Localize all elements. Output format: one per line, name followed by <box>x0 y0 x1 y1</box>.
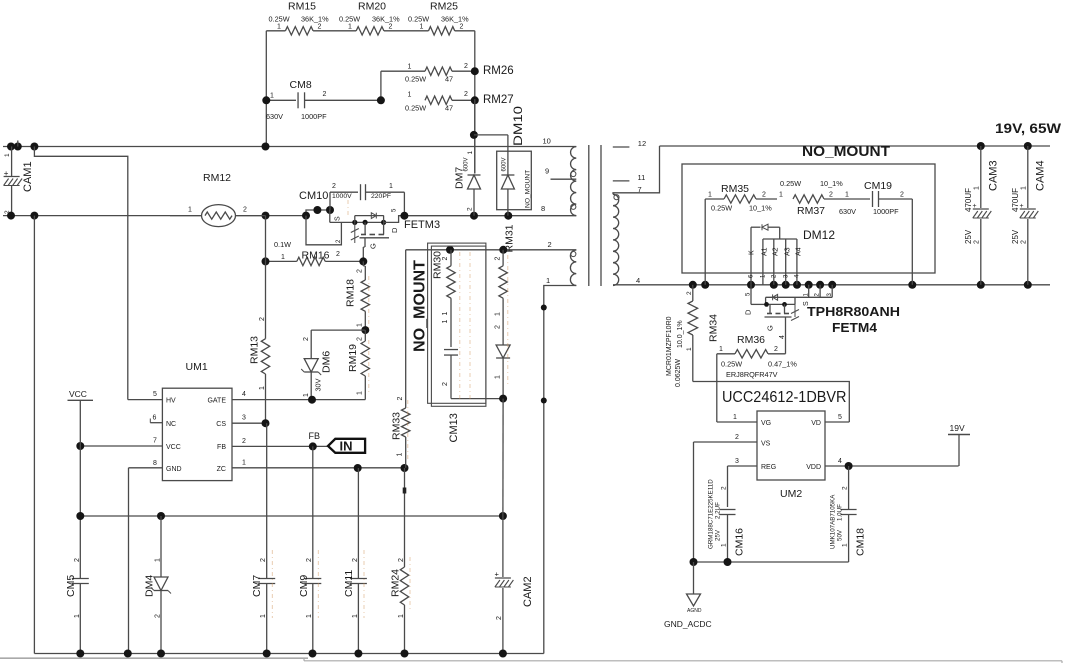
svg-text:2: 2 <box>442 257 449 261</box>
transistor FETM3 <box>330 208 440 261</box>
svg-text:1: 1 <box>260 614 267 618</box>
svg-text:CM8: CM8 <box>290 79 312 91</box>
svg-text:TPH8R80ANH: TPH8R80ANH <box>807 305 900 319</box>
svg-text:RM35: RM35 <box>721 183 749 195</box>
svg-text:CM11: CM11 <box>343 570 355 597</box>
op-amp U1 label UM1 <box>186 361 208 373</box>
svg-text:5: 5 <box>838 414 842 421</box>
svg-text:1: 1 <box>352 614 359 618</box>
svg-text:2: 2 <box>686 291 693 295</box>
svg-text:2: 2 <box>397 397 404 401</box>
svg-text:RM12: RM12 <box>203 172 231 184</box>
svg-text:2: 2 <box>357 337 364 341</box>
svg-text:1: 1 <box>495 375 502 379</box>
resistor RM16 <box>262 240 368 266</box>
power VCC <box>68 389 94 446</box>
svg-text:FB: FB <box>217 444 226 451</box>
svg-text:0.1W: 0.1W <box>274 240 291 249</box>
wire HV drop <box>34 147 127 400</box>
svg-text:NO_MOUNT: NO_MOUNT <box>412 260 429 352</box>
svg-text:2: 2 <box>495 257 502 261</box>
capacitor CM8 <box>262 79 385 121</box>
svg-text:DM6: DM6 <box>321 351 333 373</box>
svg-text:1: 1 <box>721 543 728 547</box>
svg-text:RM25: RM25 <box>430 0 458 12</box>
wire top network left rail <box>266 31 285 147</box>
svg-text:GATE: GATE <box>207 398 226 405</box>
svg-text:1: 1 <box>974 186 981 190</box>
svg-text:2: 2 <box>762 192 766 199</box>
svg-text:2: 2 <box>496 616 503 620</box>
svg-text:2: 2 <box>318 23 322 30</box>
annotation NO_MOUNT right <box>682 144 935 273</box>
svg-text:CM9: CM9 <box>298 575 310 597</box>
svg-text:1: 1 <box>546 276 550 285</box>
svg-text:1: 1 <box>442 320 449 324</box>
svg-text:A4: A4 <box>796 247 803 256</box>
svg-text:RM31: RM31 <box>504 224 516 252</box>
capacitor CM13 <box>442 320 503 443</box>
svg-text:FETM4: FETM4 <box>832 321 877 335</box>
resistor RM19 <box>347 330 370 400</box>
svg-text:1: 1 <box>259 386 266 390</box>
svg-text:RM36: RM36 <box>737 334 765 346</box>
resistor RM35 <box>705 183 777 213</box>
svg-text:2: 2 <box>900 192 904 199</box>
svg-text:CAM3: CAM3 <box>988 160 1000 191</box>
capacitor CM7 <box>251 423 275 653</box>
svg-text:0.0625W: 0.0625W <box>675 359 682 387</box>
svg-text:1: 1 <box>303 393 310 397</box>
svg-text:1: 1 <box>281 254 285 261</box>
svg-text:G: G <box>369 243 378 249</box>
svg-text:FB: FB <box>309 431 321 441</box>
wire secondary top bus <box>660 142 1051 150</box>
annotation bottom frame <box>0 658 1062 663</box>
svg-text:2: 2 <box>357 269 364 273</box>
svg-text:1: 1 <box>408 64 412 71</box>
svg-text:G: G <box>766 325 775 331</box>
svg-text:2: 2 <box>260 558 267 562</box>
svg-text:2: 2 <box>464 91 468 98</box>
svg-text:1: 1 <box>357 391 364 395</box>
svg-text:1: 1 <box>397 453 404 457</box>
svg-text:19V: 19V <box>950 423 965 433</box>
svg-text:4: 4 <box>779 335 786 339</box>
svg-text:NO_MOUNT: NO_MOUNT <box>802 144 890 160</box>
annotation dnp marks <box>272 200 508 618</box>
wire CAM1 ground column <box>33 216 35 654</box>
svg-text:RM13: RM13 <box>249 336 261 364</box>
op-amp UM2 body <box>757 411 825 500</box>
wire UM2 gnd <box>690 558 849 566</box>
resistor RM30 <box>432 250 456 347</box>
svg-text:630V: 630V <box>266 112 283 121</box>
resistor RM26 <box>381 63 514 100</box>
svg-text:2: 2 <box>389 23 393 30</box>
svg-text:2: 2 <box>721 486 728 490</box>
svg-text:CM18: CM18 <box>855 528 867 556</box>
diode DM10 box <box>474 106 532 216</box>
svg-text:ERJ8RQFR47V: ERJ8RQFR47V <box>726 370 778 379</box>
resistor RM20 <box>339 0 400 35</box>
svg-text:600V: 600V <box>502 157 508 171</box>
capacitor CAM3 <box>964 146 1000 285</box>
svg-text:1: 1 <box>4 153 11 157</box>
svg-text:UM1: UM1 <box>186 361 208 373</box>
diode RM31 lower <box>495 325 511 516</box>
capacitor CM19 <box>839 180 912 216</box>
svg-text:2: 2 <box>74 558 81 562</box>
label output <box>995 121 1061 136</box>
pin 4 VDD <box>825 458 959 470</box>
diode DM12 <box>749 224 836 285</box>
pin 4 GATE <box>232 391 365 404</box>
svg-text:25V: 25V <box>1011 229 1020 244</box>
svg-text:2: 2 <box>464 63 468 70</box>
pin 1 ZC <box>232 460 409 473</box>
diode DM6 <box>301 330 365 400</box>
svg-text:1: 1 <box>74 614 81 618</box>
svg-text:VCC: VCC <box>69 389 87 399</box>
capacitor CM16 <box>708 479 746 562</box>
svg-text:RM26: RM26 <box>483 65 514 77</box>
resistor RM24 <box>390 468 409 654</box>
svg-text:10_1%: 10_1% <box>820 179 843 188</box>
svg-text:0.47_1%: 0.47_1% <box>768 360 797 369</box>
transformer primary winding 2-1 <box>546 240 576 285</box>
svg-text:2: 2 <box>774 346 778 353</box>
svg-text:IN: IN <box>340 439 353 454</box>
svg-text:VCC: VCC <box>166 444 181 451</box>
svg-text:600V: 600V <box>464 157 470 171</box>
pin 2 FB <box>232 438 327 450</box>
wire source loop <box>306 216 342 245</box>
svg-text:1000V: 1000V <box>332 193 352 200</box>
svg-text:+: + <box>1020 203 1024 210</box>
svg-text:1: 1 <box>495 312 502 316</box>
svg-text:2: 2 <box>332 183 336 190</box>
transistor FETM4 <box>744 285 901 354</box>
svg-text:VDD: VDD <box>806 464 821 471</box>
svg-text:0.25W: 0.25W <box>339 15 360 24</box>
svg-text:7: 7 <box>153 438 157 445</box>
svg-text:RM37: RM37 <box>797 205 825 217</box>
svg-text:S: S <box>335 216 342 221</box>
svg-text:RM33: RM33 <box>391 412 403 440</box>
transformer primary winding 10-8 <box>541 137 576 216</box>
svg-text:+: + <box>4 169 9 178</box>
svg-text:DM10: DM10 <box>511 106 525 146</box>
ground GND_ACDC <box>664 562 712 629</box>
svg-text:47: 47 <box>445 75 453 84</box>
svg-text:0.25W: 0.25W <box>721 360 742 369</box>
op-amp UM1 body <box>162 388 232 480</box>
wire pin2 line <box>406 246 577 254</box>
svg-text:GRM188C71E225KE11D: GRM188C71E225KE11D <box>708 479 715 549</box>
wire pin1 return <box>541 286 577 654</box>
svg-text:CM19: CM19 <box>864 180 892 192</box>
svg-text:CM10: CM10 <box>299 190 328 202</box>
resistor RM33 <box>391 250 410 468</box>
svg-text:2: 2 <box>460 23 464 30</box>
svg-text:0.25W: 0.25W <box>405 104 426 113</box>
svg-text:19V, 65W: 19V, 65W <box>995 121 1061 136</box>
svg-text:UCC24612-1DBVR: UCC24612-1DBVR <box>722 389 847 406</box>
svg-text:1000PF: 1000PF <box>301 112 327 121</box>
svg-text:GND_ACDC: GND_ACDC <box>664 619 712 629</box>
svg-text:2: 2 <box>155 614 162 618</box>
wire VD leg <box>693 382 850 423</box>
svg-text:CAM2: CAM2 <box>522 576 534 607</box>
svg-text:RM27: RM27 <box>483 94 514 106</box>
svg-text:RM20: RM20 <box>358 0 386 12</box>
resistor RM27 <box>405 91 514 113</box>
svg-text:1: 1 <box>420 23 424 30</box>
svg-text:AGND: AGND <box>687 608 702 614</box>
svg-text:10: 10 <box>543 137 551 146</box>
svg-text:2: 2 <box>442 382 449 386</box>
capacitor CM10 <box>299 183 404 216</box>
capacitor CM5 <box>65 558 89 654</box>
svg-text:1: 1 <box>779 192 783 199</box>
resistor RM36 <box>717 334 798 379</box>
svg-text:1: 1 <box>357 323 364 327</box>
svg-text:RM15: RM15 <box>288 0 316 12</box>
op-amp UM2 label <box>722 389 847 406</box>
svg-text:2: 2 <box>467 207 474 211</box>
svg-text:630V: 630V <box>839 207 856 216</box>
svg-text:2: 2 <box>842 486 849 490</box>
svg-text:DM12: DM12 <box>803 228 835 242</box>
svg-text:1: 1 <box>348 23 352 30</box>
svg-text:1: 1 <box>467 151 474 155</box>
svg-text:1: 1 <box>845 192 849 199</box>
wire VG leg <box>716 354 718 422</box>
wire RM20-RM25 <box>384 30 429 32</box>
svg-text:1: 1 <box>708 192 712 199</box>
svg-text:REG: REG <box>761 464 776 471</box>
svg-text:1: 1 <box>242 460 246 467</box>
svg-text:RM30: RM30 <box>432 251 444 279</box>
svg-text:HV: HV <box>166 398 176 405</box>
resistor RM15 <box>269 0 330 35</box>
svg-text:10_1%: 10_1% <box>749 204 772 213</box>
resistor RM18 <box>345 261 370 334</box>
pin 3 CS <box>232 415 270 428</box>
svg-text:VD: VD <box>811 420 821 427</box>
capacitor CAM4 <box>1011 146 1047 285</box>
svg-text:2: 2 <box>974 240 981 244</box>
annotation NO_MOUNT middle <box>412 243 486 406</box>
capacitor CM18 <box>830 466 867 562</box>
svg-text:CAM1: CAM1 <box>22 161 34 192</box>
net FB flag IN <box>309 431 366 454</box>
svg-text:CM13: CM13 <box>448 413 460 442</box>
svg-text:12: 12 <box>638 139 646 148</box>
svg-text:0.25W: 0.25W <box>711 204 732 213</box>
svg-text:CM7: CM7 <box>251 575 263 597</box>
svg-text:1: 1 <box>188 207 192 214</box>
svg-text:6: 6 <box>153 415 157 422</box>
wire pin7 up <box>613 146 660 194</box>
svg-text:3: 3 <box>735 458 739 465</box>
node stub L <box>17 141 19 147</box>
svg-text:RM16: RM16 <box>302 250 330 262</box>
svg-text:0.25W: 0.25W <box>780 179 801 188</box>
svg-text:11: 11 <box>638 173 646 182</box>
svg-text:2: 2 <box>1021 240 1028 244</box>
svg-text:GND: GND <box>166 466 182 473</box>
svg-text:K: K <box>749 250 756 255</box>
svg-text:1: 1 <box>686 347 693 351</box>
capacitor CAM2 <box>495 516 535 654</box>
power 19V <box>948 423 970 466</box>
svg-text:VG: VG <box>761 420 771 427</box>
pin 5 VD <box>825 414 849 422</box>
pin 8 GND <box>129 460 163 654</box>
svg-text:UMK107AB7105KA: UMK107AB7105KA <box>830 494 837 549</box>
svg-text:220PF: 220PF <box>371 193 391 200</box>
svg-text:2: 2 <box>398 558 405 562</box>
svg-text:36K_1%: 36K_1% <box>441 15 469 24</box>
svg-text:0.25W: 0.25W <box>408 15 429 24</box>
svg-text:DM4: DM4 <box>144 575 156 597</box>
wire secondary bottom bus <box>613 281 1050 289</box>
svg-text:MCR01MZPF10R0: MCR01MZPF10R0 <box>666 316 673 376</box>
svg-text:36K_1%: 36K_1% <box>301 15 329 24</box>
svg-text:2: 2 <box>242 438 246 445</box>
svg-text:1: 1 <box>408 92 412 99</box>
wire ground bus <box>34 650 543 658</box>
svg-text:2: 2 <box>495 325 502 329</box>
svg-text:2: 2 <box>829 192 833 199</box>
svg-text:4: 4 <box>838 458 842 465</box>
transformer secondary winding 7-4 <box>613 185 642 285</box>
svg-text:+: + <box>495 570 500 579</box>
wire top network right rail <box>455 31 475 174</box>
svg-text:1: 1 <box>733 414 737 421</box>
diode DM4 <box>144 516 172 654</box>
svg-text:2: 2 <box>259 317 266 321</box>
svg-text:A2: A2 <box>773 247 780 256</box>
svg-text:0.25W: 0.25W <box>269 15 290 24</box>
resistor RM37 <box>779 179 845 217</box>
svg-text:UM2: UM2 <box>780 488 802 500</box>
wire VCC rail <box>76 446 507 579</box>
svg-text:4: 4 <box>242 391 246 398</box>
svg-text:RM24: RM24 <box>390 569 402 597</box>
svg-text:8: 8 <box>541 204 545 213</box>
pin 6 NC <box>150 415 162 423</box>
svg-text:36K_1%: 36K_1% <box>372 15 400 24</box>
svg-text:D: D <box>744 309 753 315</box>
svg-text:2: 2 <box>306 558 313 562</box>
svg-text:1: 1 <box>719 346 723 353</box>
svg-text:CM5: CM5 <box>65 575 77 597</box>
svg-text:2.2UF: 2.2UF <box>715 502 722 519</box>
svg-text:5: 5 <box>153 391 157 398</box>
wire RM15-RM20 <box>313 30 356 32</box>
svg-text:+: + <box>973 203 977 210</box>
svg-text:VS: VS <box>761 441 771 448</box>
svg-text:CAM4: CAM4 <box>1035 160 1047 191</box>
svg-text:2: 2 <box>303 337 310 341</box>
svg-text:CS: CS <box>216 421 226 428</box>
wire source jog <box>302 206 334 220</box>
svg-text:2: 2 <box>548 240 552 249</box>
svg-text:1: 1 <box>155 558 162 562</box>
svg-text:1: 1 <box>398 614 405 618</box>
svg-text:NO_MOUNT: NO_MOUNT <box>525 170 532 208</box>
svg-text:ZC: ZC <box>217 466 226 473</box>
pin 2 VS <box>694 434 758 562</box>
svg-text:2: 2 <box>352 558 359 562</box>
svg-text:0.25W: 0.25W <box>405 75 426 84</box>
pin 5 HV <box>128 391 163 400</box>
node stub 11 <box>613 173 645 182</box>
svg-text:2: 2 <box>243 207 247 214</box>
resistor RM25 <box>408 0 469 35</box>
pin 1 VG <box>717 414 757 422</box>
wire RM35 left leg <box>704 199 706 285</box>
svg-text:1: 1 <box>270 93 274 100</box>
svg-text:8: 8 <box>153 460 157 467</box>
resistor RM34 <box>666 285 720 387</box>
resistor RM12 <box>170 172 266 227</box>
svg-text:47: 47 <box>445 104 453 113</box>
wire CM19 right leg <box>911 199 913 285</box>
svg-text:2: 2 <box>336 251 340 258</box>
svg-text:25V: 25V <box>715 529 722 541</box>
svg-text:D: D <box>390 227 399 233</box>
svg-text:1000PF: 1000PF <box>873 207 899 216</box>
svg-text:FETM3: FETM3 <box>404 219 440 231</box>
svg-text:30V: 30V <box>314 378 323 391</box>
capacitor CM9 <box>298 446 321 653</box>
svg-text:RM19: RM19 <box>347 344 359 372</box>
svg-text:1: 1 <box>306 614 313 618</box>
svg-text:9: 9 <box>545 167 549 176</box>
svg-text:4: 4 <box>636 276 640 285</box>
resistor RM13 <box>249 216 270 424</box>
svg-text:CM16: CM16 <box>734 528 746 556</box>
svg-text:2: 2 <box>735 434 739 441</box>
svg-text:1: 1 <box>442 312 449 316</box>
diode DM7 <box>454 99 481 216</box>
svg-text:RM18: RM18 <box>345 279 357 307</box>
pin 3 REG <box>728 458 758 507</box>
svg-text:RM34: RM34 <box>708 314 720 342</box>
svg-text:1.0UF: 1.0UF <box>837 504 844 521</box>
svg-text:10.0_1%: 10.0_1% <box>677 320 684 348</box>
transformer core <box>589 145 601 286</box>
svg-text:3: 3 <box>242 415 246 422</box>
node stub 12 <box>613 139 646 148</box>
svg-text:1: 1 <box>842 543 849 547</box>
svg-text:25V: 25V <box>964 229 973 244</box>
svg-text:A1: A1 <box>762 247 769 256</box>
svg-text:A3: A3 <box>785 247 792 256</box>
svg-text:1: 1 <box>1021 186 1028 190</box>
svg-text:1: 1 <box>389 183 393 190</box>
wire bottom bus primary <box>3 212 306 220</box>
wire top bus primary <box>3 143 576 151</box>
capacitor CM11 <box>343 468 367 654</box>
svg-text:1: 1 <box>277 23 281 30</box>
svg-text:NC: NC <box>166 421 176 428</box>
svg-text:2: 2 <box>323 91 327 98</box>
